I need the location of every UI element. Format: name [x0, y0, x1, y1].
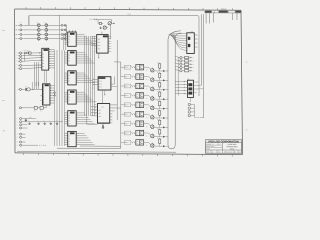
svg-text:10: 10 — [68, 60, 70, 62]
capacitor C14 — [49, 120, 52, 125]
svg-text:10: 10 — [68, 94, 70, 96]
wire xtal row — [22, 88, 43, 91]
ferrite bead FB1 — [61, 24, 66, 26]
led DS2 — [188, 107, 194, 110]
svg-text:825: 825 — [98, 42, 101, 44]
resistor R16 — [157, 119, 161, 128]
wire pullup row 1 — [175, 56, 194, 59]
svg-text:1K: 1K — [157, 62, 159, 64]
connector J2 pin 7 — [18, 88, 22, 90]
connector J2 pin 11 — [16, 124, 21, 126]
connector J2 pin 1 — [16, 52, 21, 54]
driver K1 — [136, 65, 144, 70]
ic U1 latch — [64, 32, 79, 46]
net label PB2 — [124, 84, 135, 88]
diode CR2 — [26, 52, 28, 54]
wire pullup row 5 — [175, 70, 194, 73]
wire +5V row — [22, 117, 36, 119]
svg-text:SIZE: SIZE — [206, 151, 209, 153]
resistor R5 — [185, 66, 189, 68]
svg-text:88: 88 — [42, 57, 44, 59]
transistor Q4 — [146, 77, 154, 82]
resistor R6 — [185, 70, 189, 72]
svg-text:104: 104 — [218, 151, 220, 153]
varistor RV1 — [24, 50, 31, 54]
wire S1 to bus — [197, 82, 204, 89]
svg-text:10: 10 — [68, 123, 70, 125]
connector J1 pin 3 — [16, 34, 24, 36]
driver K7 — [136, 121, 144, 126]
arrow out 5 — [154, 108, 168, 110]
capacitor C12 — [37, 120, 40, 125]
wire cell 5 mid — [144, 105, 151, 107]
svg-text:1K: 1K — [157, 81, 159, 83]
wire cell 4 input — [121, 94, 125, 96]
wire cell 6 input — [121, 113, 125, 115]
label row comps — [20, 22, 46, 24]
svg-text:S1: S1 — [187, 79, 189, 81]
svg-text:10: 10 — [68, 39, 70, 41]
transistor Q9 — [146, 124, 154, 129]
ic U26 port — [91, 104, 113, 125]
svg-text:1K: 1K — [157, 100, 159, 102]
driver K6 — [136, 112, 144, 117]
svg-text:CR1 CR2: CR1 CR2 — [24, 50, 30, 52]
svg-text:825: 825 — [99, 116, 102, 118]
ferrite bead FB2 — [61, 29, 66, 31]
diode CR5 — [180, 63, 182, 65]
wire cap row — [22, 105, 47, 108]
capacitor C3 — [45, 33, 48, 36]
svg-text:PROM/IO BRD: PROM/IO BRD — [227, 146, 239, 148]
wire row 12 — [22, 124, 28, 126]
transistor Q10 — [146, 133, 154, 138]
resistor R18 — [157, 138, 161, 147]
svg-text:PB5-7: PB5-7 — [125, 114, 129, 116]
resistor R14 — [157, 100, 161, 109]
wire cell 1 input — [121, 66, 125, 68]
svg-text:U26: U26 — [101, 107, 104, 109]
wire output bus channel — [168, 31, 182, 149]
ground U26 — [102, 123, 104, 129]
inductor L4 — [37, 37, 40, 40]
wire address bundle left — [55, 15, 66, 146]
arrow out 3 — [154, 89, 168, 91]
capacitor C9 — [40, 106, 43, 112]
connector J2 pin 6 — [16, 67, 21, 69]
svg-text:10: 10 — [68, 80, 70, 82]
svg-text:10: 10 — [68, 115, 70, 117]
svg-text:10: 10 — [68, 141, 70, 143]
wire row 3 — [23, 34, 66, 36]
svg-text:825: 825 — [99, 113, 102, 115]
svg-text:Q: Q — [146, 107, 147, 109]
wire port bus A — [116, 40, 118, 120]
wire cell 7 input — [121, 123, 125, 125]
arrow out 1 — [154, 70, 168, 72]
svg-text:ENGR: ENGR — [206, 148, 210, 150]
wire data return 2 — [57, 147, 121, 149]
net label PB5 — [124, 112, 135, 116]
svg-text:825: 825 — [98, 48, 101, 50]
wire cell 2 mid — [144, 77, 151, 79]
svg-text:10: 10 — [68, 135, 70, 137]
svg-text:88: 88 — [42, 66, 44, 68]
transistor Q11 — [146, 143, 154, 148]
svg-text:PB1-7: PB1-7 — [125, 76, 129, 78]
svg-text:1001-24: 1001-24 — [221, 9, 227, 11]
capacitor C2 — [45, 29, 48, 32]
ic U10 clock gen — [40, 84, 54, 105]
connector J2 pin 12 — [16, 127, 21, 129]
wire box1 top stubs — [69, 30, 75, 32]
diode CR7 — [180, 70, 182, 72]
wire clock bus loop — [29, 15, 199, 96]
net label PB4 — [124, 103, 135, 107]
svg-text:10: 10 — [68, 55, 70, 57]
svg-text:10: 10 — [68, 138, 70, 140]
arrow out 4 — [154, 98, 168, 100]
svg-text:825: 825 — [99, 81, 102, 83]
connector J2 pin 5 — [16, 64, 21, 66]
wire cell 4 mid — [144, 95, 151, 97]
svg-text:PB4-7: PB4-7 — [125, 104, 129, 106]
svg-text:10: 10 — [68, 144, 70, 146]
connector J2 pin 14 — [16, 136, 21, 138]
arrow out 7 — [154, 126, 168, 128]
capacitor C8 — [34, 106, 38, 112]
wire bus branch B — [201, 14, 203, 85]
resistor R15 — [157, 109, 161, 118]
wire U26 left loop — [87, 95, 98, 124]
svg-text:Q: Q — [146, 88, 147, 90]
connector J2 pin 13 — [16, 133, 21, 135]
resistor R13 — [157, 91, 161, 100]
svg-text:Q: Q — [146, 117, 147, 119]
resistor R3 — [185, 60, 189, 62]
wire led common — [191, 98, 204, 118]
svg-text:PB6-7: PB6-7 — [125, 123, 129, 125]
transistor Q3 — [146, 67, 154, 72]
resistor network RN1 — [187, 31, 199, 53]
led DS1 — [188, 103, 194, 106]
connector J2 pin 16 — [16, 144, 21, 146]
inductor L3 — [37, 33, 40, 36]
capacitor C7 — [100, 27, 102, 29]
driver K9 — [136, 140, 144, 145]
arrow out 6 — [154, 117, 168, 119]
wire U24 lower stub — [98, 53, 99, 58]
ferrite bead FB3 — [61, 34, 66, 36]
wire rows into buffer — [65, 25, 67, 34]
wire U25 gnd stub — [102, 90, 105, 104]
wire row 15 — [22, 136, 26, 138]
ic U3 latch — [64, 71, 79, 85]
svg-text:10: 10 — [68, 36, 70, 38]
wire cell 3 mid — [144, 86, 151, 88]
dip switch S1 — [175, 79, 196, 98]
svg-text:10: 10 — [68, 100, 70, 102]
driver K4 — [136, 93, 144, 98]
transistor Q5 — [146, 86, 154, 91]
resistor R2 — [185, 57, 189, 59]
wire osc verticals — [32, 82, 38, 89]
svg-text:10: 10 — [68, 42, 70, 44]
led DS3 — [188, 111, 194, 114]
ic U9 buffer — [40, 48, 55, 70]
svg-text:4/76: 4/76 — [217, 144, 220, 146]
net label PB3 — [124, 94, 135, 98]
driver K5 — [136, 102, 144, 107]
wire cell 9 mid — [144, 142, 151, 144]
revision table — [205, 9, 242, 24]
wire pullup row 3 — [175, 63, 194, 66]
capacitor C4 — [45, 37, 48, 40]
connector J1 pin 4 — [16, 38, 24, 40]
crystal Y1 — [25, 86, 31, 91]
diode CR4 — [180, 60, 182, 62]
svg-text:825: 825 — [99, 86, 102, 88]
wire row 14 — [22, 133, 26, 135]
wire filter column a — [38, 23, 40, 41]
wire row 4 — [23, 38, 66, 40]
connector J2 pin 8 — [19, 107, 21, 109]
svg-text:825: 825 — [98, 39, 101, 41]
wire cell 2 input — [121, 76, 125, 78]
wire bus to ports — [93, 42, 97, 114]
connector J1 pin 2 — [16, 29, 24, 31]
connector J2 pin 15 — [16, 141, 21, 143]
svg-text:10: 10 — [68, 75, 70, 77]
driver K8 — [136, 130, 144, 135]
wire sense line — [177, 57, 179, 96]
svg-text:Q: Q — [146, 145, 147, 147]
wire spare row — [22, 144, 46, 147]
connector J2 pin 4 — [16, 60, 21, 62]
wire row 2 — [23, 29, 66, 31]
svg-text:10: 10 — [68, 78, 70, 80]
wire row 1 — [23, 24, 66, 26]
arrow out 8 — [154, 136, 168, 138]
svg-text:DWG 1001-24: DWG 1001-24 — [224, 151, 233, 153]
capacitor C15 — [55, 120, 58, 125]
wire filter column b — [45, 23, 47, 41]
transistor Q6 — [146, 96, 154, 101]
capacitor C13 — [43, 120, 46, 125]
wire J2 to U9 — [22, 53, 42, 69]
transistor Q2 — [103, 26, 106, 29]
svg-text:PRO-LOG CORPORATION: PRO-LOG CORPORATION — [209, 140, 239, 143]
svg-text:PB8-7: PB8-7 — [125, 142, 129, 144]
resistor R4 — [185, 63, 189, 65]
wire cell 8 mid — [144, 133, 151, 135]
inductor L2 — [37, 29, 40, 32]
svg-text:Q: Q — [146, 126, 147, 128]
ic U4 latch — [64, 90, 79, 104]
wire data bundle mid — [85, 36, 95, 116]
wire osc loop — [89, 19, 112, 24]
gate hooks — [54, 92, 56, 96]
svg-text:PB2-7: PB2-7 — [125, 86, 129, 88]
svg-text:U23: U23 — [191, 31, 194, 33]
ic U6 latch — [64, 131, 79, 146]
led DS4 — [188, 114, 194, 117]
wire U26 bottom bold — [98, 122, 110, 124]
wire column to bus — [79, 34, 94, 144]
title block — [205, 140, 241, 154]
wire U26 to bus — [112, 105, 121, 111]
svg-text:10: 10 — [68, 97, 70, 99]
wire cell 5 input — [121, 104, 125, 106]
diode CR6 — [180, 66, 182, 68]
svg-text:Q: Q — [146, 135, 147, 137]
capacitor C10 — [25, 119, 27, 122]
net label PB8 — [124, 141, 135, 145]
wire pullup row 2 — [175, 60, 194, 63]
net label PB0 — [124, 65, 135, 69]
ic U5 latch — [64, 111, 79, 126]
diode CR3 — [180, 56, 182, 58]
label osc bus — [127, 14, 131, 16]
svg-text:1K: 1K — [157, 109, 159, 111]
svg-text:1/1: 1/1 — [239, 151, 241, 153]
arrow out 2 — [154, 79, 168, 81]
svg-text:Q: Q — [146, 98, 147, 100]
resistor R11 — [157, 72, 161, 81]
inductor L1 — [37, 24, 40, 27]
net label PB7 — [124, 131, 135, 135]
connector J1 pin 1 — [16, 24, 24, 26]
capacitor C11 — [28, 120, 31, 125]
svg-text:825: 825 — [98, 45, 101, 47]
svg-text:10: 10 — [68, 118, 70, 120]
wire bus branch C — [202, 14, 204, 118]
ferrite bead FB4 — [61, 38, 66, 40]
svg-text:88: 88 — [42, 60, 44, 62]
svg-text:+5V: +5V — [29, 117, 32, 119]
wire cell 7 mid — [144, 124, 151, 126]
wire bus drop to row 1 — [28, 15, 30, 25]
wire pullup row 4 — [175, 66, 194, 69]
resistor R12 — [157, 81, 161, 90]
resistor R10 — [157, 62, 161, 71]
svg-text:PB7-7: PB7-7 — [125, 133, 129, 135]
svg-text:Q: Q — [146, 70, 147, 72]
transistor Q1 — [108, 22, 111, 26]
wire row 13 — [22, 127, 28, 129]
connector J2 pin 9 — [16, 118, 21, 120]
connector J2 pin 3 — [16, 57, 21, 59]
wire osc out — [102, 23, 115, 39]
svg-text:PB3-7: PB3-7 — [125, 95, 129, 97]
svg-text:1K: 1K — [157, 128, 159, 130]
node n1 — [39, 53, 41, 57]
wire row 16 — [22, 141, 26, 143]
svg-text:D: D — [235, 151, 236, 153]
wire cell 9 input — [121, 141, 125, 143]
svg-text:825: 825 — [99, 84, 102, 86]
ic U2 latch — [64, 51, 79, 66]
wire ground return bus — [17, 151, 176, 152]
svg-text:2 MHZ: 2 MHZ — [127, 14, 131, 16]
svg-text:C8: C8 — [34, 110, 36, 112]
wire U9 verticals — [34, 62, 38, 89]
svg-text:1K: 1K — [157, 138, 159, 140]
transistor Q7 — [146, 105, 154, 110]
svg-text:10: 10 — [68, 57, 70, 59]
svg-text:88: 88 — [42, 54, 44, 56]
svg-text:10: 10 — [68, 120, 70, 122]
svg-text:1K: 1K — [157, 91, 159, 93]
ic U25 port — [93, 77, 111, 90]
svg-text:1K: 1K — [157, 72, 159, 74]
diode CR1 — [24, 52, 26, 54]
connector J2 pin 2 — [16, 54, 21, 56]
wire cell 3 input — [121, 85, 125, 87]
ic U24 timer — [91, 32, 112, 54]
wire port bus B — [114, 62, 121, 148]
svg-text:825: 825 — [99, 110, 102, 112]
svg-text:PB0-7: PB0-7 — [125, 67, 129, 69]
driver K3 — [136, 83, 144, 88]
wire gnd row — [22, 121, 63, 123]
resistor R1 — [99, 22, 101, 24]
svg-text:Y1: Y1 — [25, 86, 27, 88]
svg-text:88: 88 — [42, 63, 44, 65]
wire RN1 fan — [169, 34, 187, 51]
net label PB6 — [124, 122, 135, 126]
driver K2 — [136, 74, 144, 79]
svg-text:Q: Q — [146, 79, 147, 81]
wire cell 8 input — [121, 132, 125, 134]
svg-text:+5V OSC: +5V OSC — [89, 19, 95, 21]
arrow out 9 — [154, 145, 168, 147]
connector J2 pin 10 — [16, 121, 21, 123]
capacitor C1 — [45, 24, 48, 27]
transistor Q8 — [146, 114, 154, 119]
resistor R17 — [157, 128, 161, 137]
net label PB1 — [124, 75, 135, 79]
wire U25 to bus — [111, 76, 117, 86]
wire cell 1 mid — [144, 67, 151, 69]
wire data return 1 — [80, 145, 121, 147]
svg-text:1K: 1K — [157, 119, 159, 121]
wire cell 6 mid — [144, 114, 151, 116]
wire U9 to U10 — [45, 70, 47, 83]
